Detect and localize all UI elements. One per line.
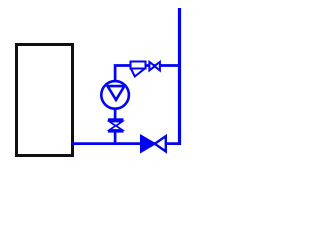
valve V2 below pump <box>108 120 124 132</box>
separator F1 cone <box>131 69 145 77</box>
valve V1 top <box>149 62 160 71</box>
wire main vertical riser <box>178 8 181 145</box>
wire bottom pipe <box>71 142 180 145</box>
pump P1 <box>101 81 129 109</box>
wire valve to bottom pipe stub <box>114 131 117 144</box>
tank T1 <box>17 45 73 156</box>
wire pump to valve stub <box>114 108 117 121</box>
separator F1 body <box>131 62 146 69</box>
wire pump top branch <box>115 66 178 82</box>
check valve V3 bottom <box>141 135 166 153</box>
